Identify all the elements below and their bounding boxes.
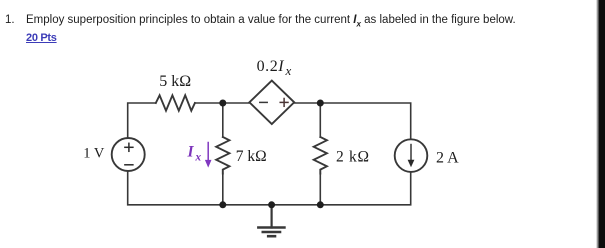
svg-text:7 kΩ: 7 kΩ — [236, 148, 267, 165]
problem statement number — [5, 14, 15, 26]
ground symbol — [258, 205, 284, 236]
arrow inside 2A source — [408, 145, 415, 168]
node A junction dot — [219, 100, 226, 107]
wire: top-left segment from source to 5k resistor — [128, 103, 156, 138]
wire: diamond to node B — [294, 102, 320, 104]
wire: 2A source to bottom-right corner — [320, 172, 410, 205]
dependent source U1 diamond 0.2Ix — [249, 81, 294, 124]
plus sign inside diamond — [280, 99, 288, 107]
minus sign inside 1V source — [125, 164, 133, 166]
black sidebar at right edge — [599, 0, 605, 248]
resistor R 7k zigzag — [216, 137, 229, 174]
wire: bottom from ground node to 7k — [223, 204, 272, 206]
resistor R 2k branch bottom wire — [319, 174, 321, 205]
resistor R 7k branch bottom wire — [222, 174, 224, 205]
points label 20 Pts — [26, 32, 57, 44]
junction dot bottom of 2k — [317, 201, 324, 208]
current source I1 2A circle — [395, 139, 428, 172]
svg-text:0.2Ix: 0.2Ix — [257, 58, 292, 78]
voltage source V1 1V circle — [112, 138, 145, 171]
resistor R 5k zigzag — [156, 95, 195, 110]
resistor R 7k branch top wire — [222, 103, 224, 137]
resistor R 2k zigzag — [314, 137, 327, 174]
svg-text:Ix: Ix — [187, 144, 202, 164]
wire: node B to top-right corner down to 2A source — [320, 103, 410, 139]
problem statement text — [26, 14, 516, 28]
svg-text:1 V: 1 V — [83, 146, 105, 162]
current arrow Ix purple — [205, 143, 212, 168]
svg-text:2 A: 2 A — [436, 150, 459, 167]
junction dot ground node — [268, 201, 275, 208]
node B junction dot — [317, 100, 324, 107]
resistor R 2k branch top wire — [319, 103, 321, 137]
wire: bottom from 7k to bottom-left corner up to 1V source — [128, 171, 223, 205]
minus sign inside diamond — [260, 101, 267, 103]
svg-text:5 kΩ: 5 kΩ — [159, 73, 191, 90]
wire: bottom from 2k to ground node — [272, 204, 321, 206]
wire: 5k resistor to node A — [195, 102, 250, 104]
svg-text:2 kΩ: 2 kΩ — [336, 148, 370, 165]
junction dot bottom of 7k — [219, 201, 226, 208]
plus sign inside 1V source — [125, 143, 133, 151]
